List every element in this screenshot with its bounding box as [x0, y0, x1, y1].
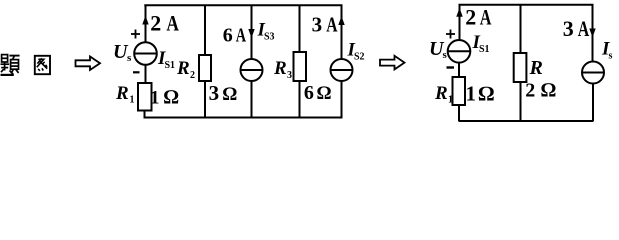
svg-text:1: 1 [466, 82, 477, 106]
svg-text:2: 2 [150, 11, 161, 36]
label: + polarity of Us (circuit 1) [131, 30, 140, 39]
label: Is2 [347, 40, 365, 63]
wire: middle branch upper segment (circuit 2) [520, 4, 522, 53]
big hollow arrow 1 (implication) [76, 57, 101, 71]
label: 3 A (circuit 2) [563, 16, 590, 41]
current source Is (circle with bar, circuit 2) [582, 62, 604, 84]
svg-text:3: 3 [312, 13, 323, 37]
svg-text:3: 3 [209, 81, 220, 105]
label: R2 [176, 58, 195, 81]
wire: top bus (circuit 1) [144, 4, 342, 6]
label: R1 (circuit 2) [434, 83, 453, 106]
svg-text:1: 1 [150, 87, 160, 108]
caption text: character 1 (drawn as strokes) [1, 55, 20, 75]
wire: R1 to bottom bus (circuit 2) [458, 105, 460, 121]
label: 3 A (circuit 1) [312, 13, 339, 37]
label: 2 A [150, 11, 179, 36]
wire: branch 3 upper segment with Is3 arrow (circuit 1) [248, 5, 254, 60]
wire: branch 4 lower segment (circuit 1) [299, 81, 301, 117]
svg-text:A: A [236, 25, 247, 47]
svg-text:S1: S1 [165, 60, 176, 71]
label: Is (circuit 2) [601, 39, 613, 62]
wire: from Is1 to R1 (circuit 1) [145, 65, 147, 83]
svg-text:6: 6 [304, 82, 314, 104]
label: Is1 (circuit 2) [472, 32, 490, 55]
svg-text:s: s [609, 51, 613, 62]
svg-text:6: 6 [223, 25, 233, 47]
svg-text:Ω: Ω [164, 86, 179, 108]
wire: top bus (circuit 2) [459, 4, 594, 6]
svg-text:s: s [127, 52, 132, 64]
wire: R1 to bottom bus (circuit 1) [144, 111, 146, 118]
label: 1 ohm (circuit 2) [466, 82, 495, 106]
wire: bottom bus (circuit 1) [144, 117, 343, 119]
wire: left branch upper segment with 2 A arrow (circuit 2) [456, 4, 462, 40]
svg-text:S3: S3 [264, 32, 275, 43]
svg-text:A: A [578, 16, 590, 41]
resistor R (circuit 2) [514, 53, 527, 82]
label: 3 ohm [209, 81, 238, 105]
label: - polarity of Us (circuit 1) [133, 71, 140, 73]
svg-text:1: 1 [448, 95, 453, 106]
big hollow arrow 2 (implication) [380, 56, 405, 70]
svg-text:Ω: Ω [317, 83, 332, 104]
svg-text:1: 1 [130, 95, 135, 106]
label: 1 ohm (circuit 1) [150, 86, 179, 108]
wire: middle branch lower segment (circuit 2) [520, 82, 522, 121]
label: Is1 (circuit 1) [157, 48, 175, 71]
svg-text:2: 2 [525, 79, 535, 101]
svg-text:A: A [326, 13, 338, 37]
svg-text:S2: S2 [354, 52, 365, 63]
wire: right branch upper segment with 3 A arrow down (circuit 2) [589, 4, 595, 62]
svg-text:R: R [434, 83, 448, 104]
label: R1 (circuit 1) [115, 83, 135, 106]
label: 2 ohm (circuit 2) [525, 79, 556, 101]
wire: Is1 to R1 (circuit 2) [458, 63, 460, 77]
svg-text:3: 3 [287, 70, 292, 81]
label: R3 [273, 58, 292, 81]
caption text: character 2 (drawn as strokes) [35, 56, 50, 74]
wire: left branch upper segment with 2 A arrow (circuit 1) [142, 5, 148, 43]
wire: branch 3 lower segment (circuit 1) [251, 81, 253, 117]
svg-text:R: R [115, 83, 129, 104]
resistor R1 (circuit 2) [453, 77, 466, 105]
svg-text:Ω: Ω [541, 79, 556, 101]
current source Is2 (circle with bar) [331, 59, 353, 81]
wire: branch 2 upper segment (circuit 1) [204, 5, 206, 56]
label: Us (circuit 2) [429, 38, 448, 61]
svg-text:R: R [273, 58, 287, 79]
svg-text:A: A [480, 4, 492, 29]
label: 6 A [223, 25, 247, 47]
svg-text:Ω: Ω [223, 84, 238, 105]
label: + polarity of Us (circuit 2) [446, 30, 455, 39]
svg-text:2: 2 [465, 4, 476, 29]
current source Is3 (circle with bar) [241, 59, 263, 81]
label: 6 ohm [304, 82, 332, 104]
svg-text:S1: S1 [479, 44, 490, 55]
wire: Is to bottom bus (circuit 2) [592, 84, 594, 122]
wire: branch 2 lower segment (circuit 1) [204, 81, 206, 117]
wire: right branch upper segment with 3 A arrow (circuit 1) [338, 5, 344, 60]
svg-text:R: R [529, 57, 543, 79]
wire: branch 4 upper segment (circuit 1) [299, 5, 301, 53]
svg-text:A: A [166, 11, 179, 36]
svg-text:R: R [176, 58, 190, 79]
wire: bottom bus (circuit 2) [459, 120, 594, 122]
label: - polarity of Us (circuit 2) [447, 66, 455, 68]
resistor R2 (circuit 1) [199, 55, 211, 81]
label: Is3 [257, 20, 275, 43]
svg-text:2: 2 [190, 70, 195, 81]
current source Is1 (circle with bar, circuit 1) [134, 42, 157, 65]
label: Us (circuit 1) [113, 41, 132, 64]
label: R (circuit 2) [529, 57, 543, 79]
resistor R1 (circuit 1) [138, 83, 152, 111]
wire: right branch lower segment (circuit 1) [341, 81, 343, 117]
current source Is1 (circle with bar, circuit 2) [448, 40, 471, 63]
svg-text:Ω: Ω [478, 82, 494, 106]
resistor R3 (circuit 1) [294, 52, 307, 81]
svg-text:3: 3 [563, 16, 574, 41]
label: 2 A (circuit 2) [465, 4, 491, 29]
